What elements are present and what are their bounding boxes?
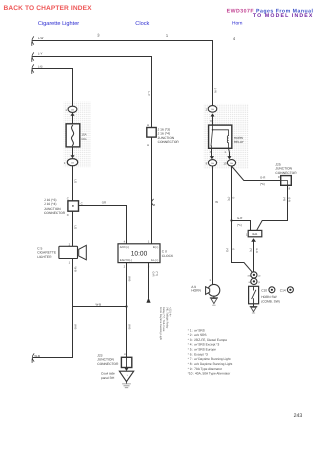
node junction (125, 305, 127, 307)
wire G-R clock ILL from DRL (148, 263, 150, 298)
inline connector on clock wire (152, 199, 154, 205)
svg-text:RELAY: RELAY (234, 140, 244, 144)
header links (4, 5, 314, 27)
svg-text:G: G (232, 197, 235, 199)
svg-text:<221-4>: <221-4> (169, 307, 172, 317)
svg-text:4: 4 (233, 36, 236, 41)
wire relay pin1 (229, 148, 230, 156)
svg-text:Relay [*7], TAIL Fuse: Relay [*7], TAIL Fuse (162, 307, 165, 332)
wire (72, 147, 74, 155)
svg-text:* 4 : w/ SRS Except *3: * 4 : w/ SRS Except *3 (188, 343, 220, 347)
wire W-B to left exit (33, 307, 72, 358)
svg-text:1: 1 (148, 240, 150, 244)
svg-text:B: B (147, 124, 149, 127)
connector 1B below fuse (67, 159, 77, 166)
svg-text:10: 10 (223, 162, 227, 166)
wire (72, 116, 74, 124)
svg-text:LG: LG (73, 180, 77, 184)
svg-text:W-B: W-B (34, 354, 40, 358)
svg-text:2: 2 (69, 242, 71, 246)
svg-text:B41: B41 (253, 232, 258, 236)
svg-text:)D: )D (258, 274, 261, 277)
svg-text:Clock: Clock (135, 20, 149, 27)
connector 1B relay top (208, 106, 217, 113)
svg-text:L-Y: L-Y (147, 92, 151, 96)
svg-text:G-R: G-R (288, 197, 291, 202)
svg-text:C14: C14 (280, 289, 286, 293)
svg-text:243: 243 (294, 413, 303, 419)
svg-text:W-B: W-B (127, 276, 131, 282)
svg-text:L-W: L-W (38, 36, 44, 40)
svg-text:CONNECTOR: CONNECTOR (44, 211, 66, 215)
relay block shading (204, 104, 249, 169)
svg-text:* 7 : w/ Daytime Running Light: * 7 : w/ Daytime Running Light (188, 357, 231, 361)
wire GR branch to clock ACC (79, 206, 127, 244)
svg-text:10:00: 10:00 (131, 250, 148, 257)
wire relay pin5 (211, 148, 213, 156)
svg-text:BACK TO CHAPTER INDEX: BACK TO CHAPTER INDEX (4, 5, 93, 12)
svg-text:8(: 8( (249, 281, 251, 284)
connector bracket wire 1 (32, 37, 34, 46)
svg-text:2: 2 (124, 265, 126, 269)
svg-text:(*1): (*1) (249, 248, 252, 252)
svg-text:L-B: L-B (38, 65, 43, 69)
wire L-Y feed (clock) (33, 57, 152, 244)
svg-text:G-R: G-R (260, 175, 265, 179)
svg-text:ACC(+): ACC(+) (120, 245, 129, 249)
svg-text:(*2): (*2) (225, 248, 228, 252)
svg-text:W-B: W-B (127, 324, 131, 330)
svg-text:J 16 (*4): J 16 (*4) (44, 202, 56, 206)
svg-text:W: W (215, 200, 218, 204)
arrow into relay (211, 113, 215, 116)
svg-text:Cigarette Lighter: Cigarette Lighter (38, 20, 79, 27)
svg-text:* 3 : 2RZ-FE, Diesel Europe: * 3 : 2RZ-FE, Diesel Europe (188, 338, 228, 342)
connector bracket wire 2 (32, 53, 34, 62)
svg-text:CONNECTOR: CONNECTOR (158, 140, 180, 144)
connector 1B top of fuse (68, 106, 77, 112)
wire G-R branch to B41 (232, 221, 251, 231)
svg-text:3: 3 (97, 33, 100, 38)
wire W-B clock earth (126, 263, 128, 358)
svg-text:G-R: G-R (152, 272, 155, 277)
wire W-B below lighter (72, 259, 74, 307)
svg-text:19(: 19( (247, 274, 250, 277)
slip ring connector lower (251, 278, 257, 284)
svg-text:C10: C10 (261, 289, 267, 293)
svg-text:(*7): (*7) (155, 272, 158, 276)
svg-text:ILL(+): ILL(+) (151, 258, 158, 262)
svg-text:* 1 : w/ SRS: * 1 : w/ SRS (188, 328, 205, 332)
svg-text:LG: LG (74, 226, 78, 230)
connector 1B relay out right (227, 160, 235, 166)
wire LG down to J16 (72, 166, 74, 201)
svg-text:C: C (67, 197, 69, 201)
clock column J16 junction connector (147, 128, 156, 138)
arrow to ground (124, 368, 128, 371)
svg-text:*10 : 40A, 50A Type Alternator: *10 : 40A, 50A Type Alternator (188, 372, 232, 376)
svg-text:* 2 : w/o SRS: * 2 : w/o SRS (188, 333, 207, 337)
svg-text:CLOCK: CLOCK (162, 254, 174, 258)
junction connector J16 (col A) (68, 201, 79, 211)
svg-text:* 6 : Except *3: * 6 : Except *3 (188, 352, 208, 356)
svg-text:L-Y: L-Y (38, 52, 43, 56)
svg-text:CIG: CIG (81, 137, 87, 141)
svg-text:(*6): (*6) (260, 182, 265, 186)
svg-text:G-R: G-R (237, 216, 242, 220)
svg-text:C: C (67, 213, 69, 217)
fuse 15A CIG (66, 124, 80, 147)
svg-text:1: 1 (166, 33, 169, 38)
svg-text:G: G (232, 248, 235, 250)
horn ground (210, 296, 217, 298)
svg-text:* 8 : w/o Daytime Running Ligh: * 8 : w/o Daytime Running Light (188, 362, 233, 366)
wire L-W feed (top) (33, 41, 213, 106)
svg-text:8: 8 (278, 175, 280, 179)
svg-text:B: B (147, 144, 149, 147)
arrow out of fuse (71, 155, 75, 158)
arrow from other page (146, 298, 150, 303)
svg-text:(*6): (*6) (282, 197, 285, 201)
connector bracket exit (32, 354, 34, 363)
fuse block shading (instrument panel J/B) (64, 102, 91, 168)
arrow into fuse (71, 113, 75, 116)
svg-text:Horn: Horn (232, 20, 243, 26)
svg-text:TO MODEL INDEX: TO MODEL INDEX (253, 13, 314, 19)
svg-text:(*1): (*1) (237, 223, 242, 227)
body ground triangle (119, 371, 133, 381)
svg-text:8: 8 (289, 187, 291, 191)
horn switch (249, 286, 259, 304)
svg-text:From Daytime Running Light: From Daytime Running Light (159, 307, 162, 340)
svg-text:* 9 : 70A Type Alternator: * 9 : 70A Type Alternator (188, 367, 223, 371)
svg-text:HORN: HORN (191, 289, 201, 293)
svg-text:GR: GR (102, 201, 106, 205)
svg-text:1: 1 (69, 261, 71, 265)
svg-text:B(+): B(+) (153, 245, 158, 249)
svg-text:CONNECTOR: CONNECTOR (97, 362, 119, 366)
svg-text:G-R: G-R (255, 248, 258, 253)
connector 1B relay out left (208, 160, 216, 166)
svg-text:15A: 15A (81, 132, 86, 136)
wire L-B feed (cig lighter) (33, 69, 73, 107)
connector bracket wire 3 (32, 65, 34, 74)
wire W to horn (212, 166, 214, 285)
svg-text:)1: )1 (258, 281, 261, 284)
svg-text:LIGHTER: LIGHTER (37, 255, 52, 259)
svg-text:* 5 : w/ SRS Europe: * 5 : w/ SRS Europe (188, 348, 217, 352)
svg-text:1: 1 (246, 232, 248, 236)
svg-text:(COMB. SW): (COMB. SW) (261, 299, 280, 303)
wire G from relay to horn switch (231, 166, 233, 263)
notes list (188, 328, 233, 375)
wire G-R from J25 down (257, 185, 288, 230)
wire LG down to lighter (72, 211, 74, 246)
svg-text:[*8], Taillight Relay: [*8], Taillight Relay (165, 307, 168, 329)
wire G-R diagonal to J25 (232, 166, 281, 181)
svg-text:4: 4 (124, 240, 126, 244)
svg-text:W-B: W-B (74, 267, 78, 273)
horn relay (209, 125, 232, 148)
svg-text:EARTH(-): EARTH(-) (120, 258, 132, 262)
ground hatch (126, 382, 128, 384)
ground rail W-B (73, 306, 127, 308)
svg-text:panel RH: panel RH (101, 376, 115, 380)
svg-text:(*2): (*2) (227, 197, 230, 201)
horn switch ground (250, 304, 257, 307)
slip ring connector upper (251, 272, 257, 278)
svg-text:L-W: L-W (213, 88, 217, 93)
svg-text:1: 1 (209, 278, 211, 282)
svg-text:W-B: W-B (96, 302, 102, 306)
svg-text:4: 4 (124, 352, 126, 356)
svg-text:6: 6 (154, 203, 156, 207)
svg-text:W-B: W-B (74, 324, 78, 330)
